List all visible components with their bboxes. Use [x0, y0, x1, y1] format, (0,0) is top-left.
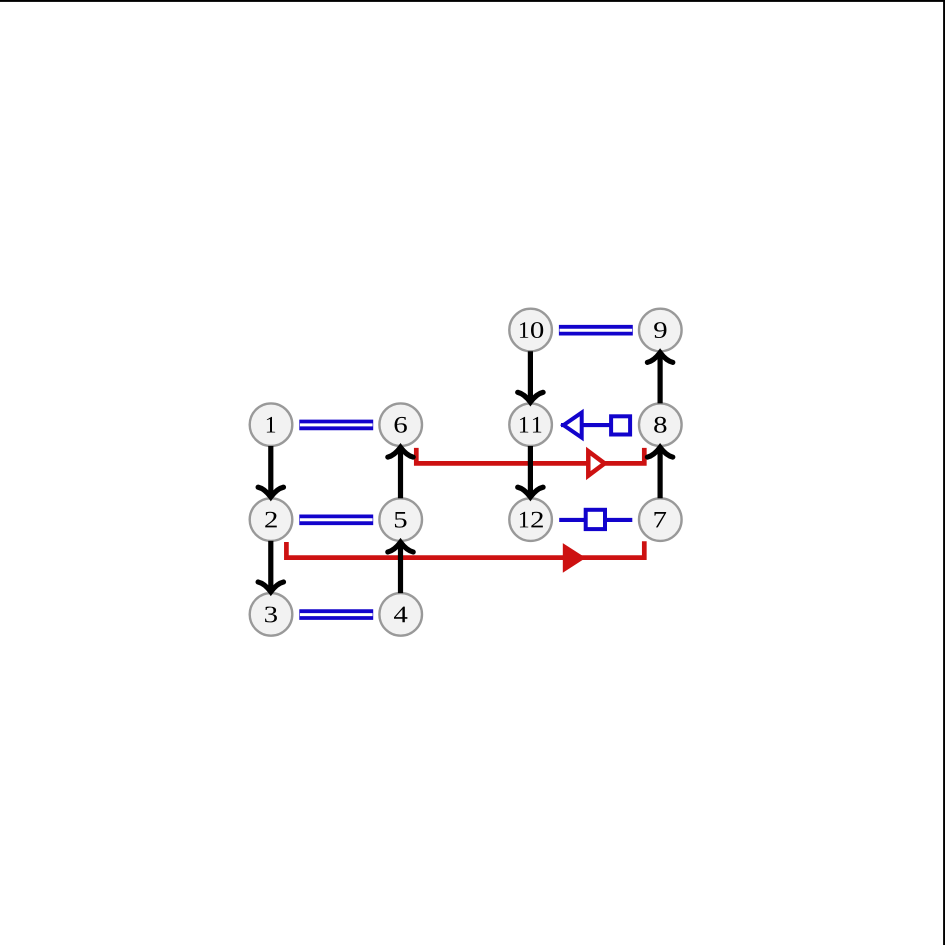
edge 11->12 arrow — [518, 446, 543, 497]
node 8 — [639, 403, 682, 446]
node 12 — [509, 498, 552, 541]
node 3 — [250, 593, 293, 636]
node 10 — [509, 309, 552, 352]
edge 8->9 arrow — [647, 353, 672, 404]
right border line — [943, 0, 945, 945]
edge 2->7 red connector with filled triangle — [286, 541, 644, 573]
edge 2->3 arrow — [258, 541, 283, 592]
node 1 — [250, 403, 293, 446]
node 11 — [509, 403, 552, 446]
edge 12-7 blue connector with square — [559, 510, 632, 529]
edge 8->11 blue connector with open triangle and square — [561, 413, 631, 438]
edge 1->2 arrow — [258, 446, 283, 497]
top border line — [0, 0, 945, 2]
edge 10=9 double line — [559, 325, 633, 336]
edge 6->8 red connector with open triangle — [416, 448, 644, 476]
edge 5->6 arrow — [388, 447, 413, 498]
edge 1=6 double line — [299, 420, 373, 431]
edge 10->11 arrow — [518, 351, 543, 402]
node 7 — [639, 498, 682, 541]
edge 2=5 double line — [299, 514, 373, 525]
node 9 — [639, 309, 682, 352]
edge 7->8 arrow — [647, 447, 672, 498]
node 4 — [379, 593, 422, 636]
node 5 — [379, 498, 422, 541]
node 2 — [250, 498, 293, 541]
edge 3=4 double line — [299, 609, 373, 620]
node 6 — [379, 403, 422, 446]
edge 4->5 arrow — [388, 542, 413, 593]
